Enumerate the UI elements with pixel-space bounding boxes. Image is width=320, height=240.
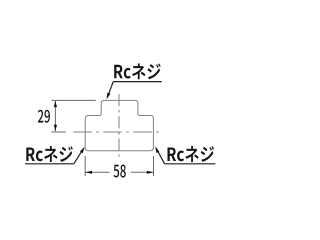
left label Rc-neji text xyxy=(26,147,35,161)
right label arrow xyxy=(155,146,159,153)
fitting body outline xyxy=(85,100,153,150)
dim 29 extension top xyxy=(51,99,96,101)
dim 29 text xyxy=(38,110,44,123)
top label arrow xyxy=(107,93,111,100)
left label leader xyxy=(74,148,84,163)
top label underline xyxy=(113,81,162,83)
right label leader xyxy=(156,148,164,164)
dim 29 extension bottom xyxy=(51,131,66,133)
dim 58 arrow right xyxy=(147,171,154,174)
dim 29 line xyxy=(54,101,56,131)
dim 58 text xyxy=(114,165,120,178)
top label Rc-neji text xyxy=(114,65,123,79)
dim 58 line right xyxy=(131,171,153,173)
dim 58 extension left xyxy=(84,156,86,176)
top label leader xyxy=(107,82,113,97)
dim 58 line left xyxy=(86,171,110,173)
vertical center line xyxy=(118,94,120,157)
right label Rc-neji text xyxy=(167,147,176,161)
left label arrow xyxy=(80,147,85,154)
dim 29 arrow down xyxy=(54,125,57,131)
right label underline xyxy=(165,163,216,165)
left label underline xyxy=(25,163,74,165)
dim 58 arrow left xyxy=(86,171,93,174)
dim 58 extension right xyxy=(153,156,155,176)
horizontal center line xyxy=(73,131,161,133)
dim 29 arrow up xyxy=(54,101,57,107)
